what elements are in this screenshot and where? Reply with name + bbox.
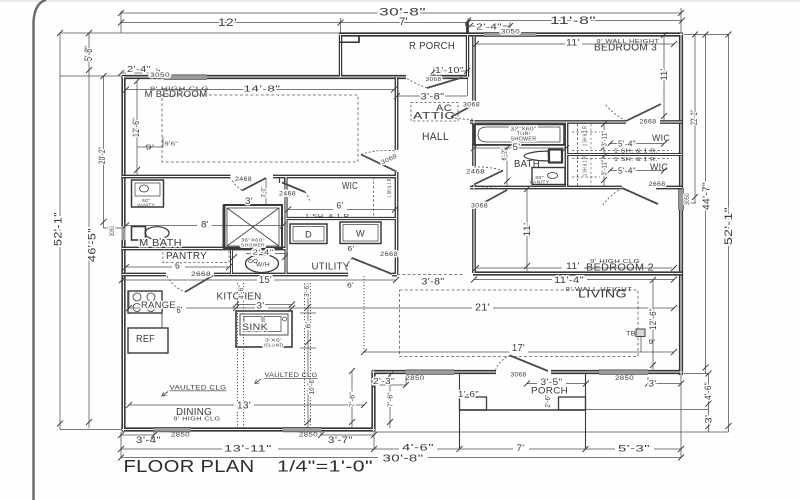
svg-text:FLOOR PLAN: FLOOR PLAN bbox=[124, 456, 255, 476]
svg-text:HALL: HALL bbox=[422, 131, 449, 143]
m-bath toilet bbox=[132, 227, 146, 241]
svg-text:W/H: W/H bbox=[256, 263, 270, 269]
svg-text:TB: TB bbox=[626, 331, 636, 338]
9'/9'6" tick m bedroom bbox=[137, 146, 163, 148]
svg-text:WIC: WIC bbox=[342, 181, 358, 192]
svg-text:VANITY: VANITY bbox=[530, 180, 550, 185]
wall: top exterior (R PORCH + BEDROOM 3) bbox=[339, 34, 484, 36]
wall: bath/wic top (bedroom3 bottom) bbox=[470, 120, 626, 124]
wall: bath right bbox=[566, 122, 568, 188]
dim line 13' dining bbox=[129, 404, 234, 406]
kitchen island + sink bbox=[236, 311, 292, 347]
svg-text:11': 11' bbox=[659, 69, 669, 81]
svg-text:1/4"=1'-0": 1/4"=1'-0" bbox=[277, 459, 373, 476]
svg-text:3'-11": 3'-11" bbox=[601, 130, 608, 146]
dim line 11' bedroom3 bbox=[476, 43, 566, 45]
svg-text:1 SH. & 1 R.: 1 SH. & 1 R. bbox=[305, 214, 352, 220]
svg-text:4'-6": 4'-6" bbox=[402, 443, 434, 454]
door 3068 hall to M bedroom: leaf bbox=[361, 155, 397, 172]
svg-text:VAULTED CLG: VAULTED CLG bbox=[265, 372, 318, 379]
svg-text:2'-3": 2'-3" bbox=[373, 377, 395, 386]
svg-text:11': 11' bbox=[566, 38, 580, 48]
window: dining bottom 2850 right bbox=[283, 428, 321, 432]
porch posts and slab bbox=[459, 374, 461, 448]
wall: R PORCH left bbox=[340, 34, 342, 77]
door 2668 utility: leaf bbox=[352, 258, 392, 274]
dim line 11'-8" top bbox=[468, 20, 682, 22]
svg-text:M BATH: M BATH bbox=[139, 238, 182, 249]
svg-text:3068: 3068 bbox=[511, 373, 527, 379]
bath2 toilet bbox=[524, 151, 549, 161]
wall: left exterior bbox=[123, 76, 125, 226]
AC attic dashed box bbox=[411, 103, 458, 122]
dim line vaulted 3'-6"/6'/10'-6" bbox=[307, 283, 309, 428]
svg-text:7'-6": 7'-6" bbox=[387, 392, 394, 407]
dim line 3'-8" hall top bbox=[397, 95, 467, 97]
dim line 3' bottom right window bbox=[648, 383, 681, 385]
dim line 2'-4" bedroom3 window bbox=[470, 25, 510, 27]
TB thermostat box bbox=[636, 329, 645, 337]
door 2468 bath2: leaf bbox=[474, 171, 503, 185]
dim line 12' / 7' top bbox=[121, 22, 468, 24]
water heater W/H bbox=[246, 255, 279, 273]
dim line 15' kitchen bbox=[122, 279, 257, 281]
wic right shelves dashed bbox=[577, 124, 579, 153]
porch right wall stub to dim line bbox=[466, 22, 469, 34]
svg-text:3050: 3050 bbox=[110, 226, 116, 236]
wall: M bedroom bottom bbox=[122, 175, 231, 179]
wall: pantry right bbox=[230, 249, 233, 275]
svg-text:5'-8": 5'-8" bbox=[83, 46, 95, 61]
dim line 30'-8" bottom bbox=[121, 457, 378, 459]
svg-text:2668: 2668 bbox=[649, 182, 666, 188]
svg-text:2468: 2468 bbox=[466, 170, 485, 176]
svg-text:46'-5": 46'-5" bbox=[86, 228, 98, 262]
wall: m-bath bottom / pantry top bbox=[122, 247, 286, 251]
door 3068 porch to hall: leaf bbox=[427, 78, 462, 89]
svg-text:6': 6' bbox=[348, 244, 355, 253]
svg-text:3': 3' bbox=[245, 196, 253, 206]
door 3068 bedroom2: leaf bbox=[474, 190, 507, 208]
svg-text:RANGE: RANGE bbox=[141, 300, 176, 310]
svg-text:1 SH & 1 R: 1 SH & 1 R bbox=[582, 126, 588, 146]
svg-text:52'-1": 52'-1" bbox=[52, 212, 64, 246]
svg-text:WIC: WIC bbox=[650, 162, 668, 172]
wall: m-bath shower left bbox=[223, 205, 225, 249]
svg-text:10'-6": 10'-6" bbox=[309, 377, 316, 394]
dim line 2'-3" living window bbox=[375, 384, 406, 386]
wall: right exterior bbox=[680, 33, 682, 188]
dim lines 5'-4" wics bbox=[610, 143, 664, 145]
svg-text:6': 6' bbox=[175, 261, 182, 271]
living ceiling dashed box bbox=[400, 290, 639, 357]
svg-text:2'-6": 2'-6" bbox=[545, 394, 552, 407]
paper edge top shading bbox=[0, 0, 800, 2]
svg-text:9'6": 9'6" bbox=[165, 142, 179, 148]
svg-text:6': 6' bbox=[347, 281, 354, 290]
wall: hall right bbox=[472, 36, 476, 104]
porch corner notch column bbox=[340, 36, 359, 42]
wall: wic bottom / bedroom2 top bbox=[470, 187, 622, 189]
svg-text:D: D bbox=[305, 230, 312, 240]
svg-text:2'-4": 2'-4" bbox=[127, 65, 151, 74]
svg-text:20'-2": 20'-2" bbox=[97, 147, 107, 164]
svg-text:ISLAND: ISLAND bbox=[264, 343, 284, 348]
svg-text:5': 5' bbox=[513, 142, 521, 152]
dim line 8' m bath bbox=[126, 225, 197, 227]
wall: hall right bbox=[473, 36, 475, 104]
svg-text:5'-4": 5'-4" bbox=[618, 140, 636, 149]
svg-text:2850: 2850 bbox=[615, 376, 634, 382]
porch corner notch column bbox=[340, 36, 359, 42]
svg-text:VANITY: VANITY bbox=[137, 203, 155, 208]
svg-text:3': 3' bbox=[649, 379, 657, 389]
pantry shelves dashed bbox=[163, 250, 229, 263]
door 3068 bedroom3: leaf bbox=[451, 105, 474, 118]
window: dining bottom 2850 right bbox=[283, 428, 321, 432]
svg-text:44'-7": 44'-7" bbox=[702, 182, 713, 210]
dim line 1'-10" porch door bbox=[434, 70, 467, 72]
wall: m-bath bottom / pantry top bbox=[122, 248, 286, 250]
dim line 12'-6" m bedroom bbox=[136, 81, 138, 176]
svg-text:2'-4": 2'-4" bbox=[476, 22, 502, 32]
window: right wall bedroom2 3050 bbox=[679, 188, 683, 210]
window: left wall m-bath 3050 bbox=[122, 226, 126, 240]
svg-text:3050: 3050 bbox=[685, 193, 691, 205]
svg-text:1 SH & 1 R: 1 SH & 1 R bbox=[387, 178, 393, 197]
svg-text:3050: 3050 bbox=[501, 30, 520, 36]
closet jamb notch between 2468 doors bbox=[280, 178, 285, 183]
svg-text:LIVING: LIVING bbox=[578, 289, 627, 301]
wic-left shelf dashed bbox=[373, 177, 375, 218]
window: right wall bedroom2 3050 bbox=[679, 188, 683, 210]
svg-text:9' HIGH CLG: 9' HIGH CLG bbox=[174, 417, 221, 423]
dim line 20'-2" left bbox=[103, 76, 105, 228]
wall: wic divider bbox=[566, 154, 681, 156]
dim line 3'-5" porch bbox=[527, 383, 537, 385]
svg-text:3': 3' bbox=[704, 415, 714, 424]
wall: R PORCH right bbox=[467, 34, 469, 77]
dim line 14'-8" m bedroom bbox=[126, 89, 245, 91]
wall: wic/utility divider bbox=[286, 218, 397, 220]
porch right wall stub to dim line bbox=[466, 22, 469, 34]
svg-text:SINK: SINK bbox=[242, 322, 268, 332]
svg-text:WIC: WIC bbox=[652, 133, 670, 143]
window: living bottom 2850 left bbox=[406, 370, 454, 374]
svg-text:9': 9' bbox=[146, 145, 155, 152]
window: 3050 top wall bedroom3 bbox=[484, 33, 536, 37]
dim line 30'-8" top bbox=[121, 12, 681, 14]
wall: top of M BEDROOM / hall (upper-left exterior) bbox=[122, 75, 164, 79]
window: 3050 M bedroom top wall bbox=[164, 75, 207, 79]
wall: R PORCH left bbox=[339, 34, 342, 77]
svg-text:12': 12' bbox=[218, 17, 237, 29]
dim line 44'-7" right bbox=[705, 35, 707, 374]
svg-text:ATTIC: ATTIC bbox=[413, 111, 455, 122]
wall: M bedroom bottom bbox=[122, 176, 231, 178]
wall: bath/wic top (bedroom3 bottom) bbox=[470, 121, 626, 123]
svg-text:14'-8": 14'-8" bbox=[244, 84, 281, 94]
window: dining bottom 2850 left bbox=[154, 428, 191, 432]
dim 3'-0" door width line bbox=[265, 178, 267, 205]
vaulted clg arrows bbox=[162, 392, 168, 397]
svg-text:2850: 2850 bbox=[299, 433, 318, 439]
svg-text:7': 7' bbox=[517, 443, 525, 454]
svg-text:2'-4": 2'-4" bbox=[253, 248, 274, 257]
wall: R PORCH right bbox=[466, 34, 469, 77]
svg-text:3068: 3068 bbox=[426, 77, 442, 83]
svg-text:6': 6' bbox=[337, 201, 344, 211]
wall: wic-left west bbox=[285, 176, 287, 275]
dim line 3' island bbox=[236, 304, 292, 306]
closet jamb notch between 2468 doors bbox=[280, 178, 285, 183]
wall: wic bottom / bedroom2 top bbox=[470, 186, 622, 190]
shower 36x60 bbox=[224, 205, 282, 249]
svg-text:6'-2": 6'-2" bbox=[501, 148, 508, 160]
wall: bottom dining exterior bbox=[122, 429, 154, 431]
svg-text:5'-3": 5'-3" bbox=[618, 444, 650, 455]
svg-text:3068: 3068 bbox=[463, 103, 480, 109]
vaulted ceiling dotted lines kitchen/dining bbox=[237, 283, 239, 428]
wall: bedroom2 bottom / living top bbox=[473, 271, 682, 275]
door 2668 wic-bottom to bedroom2: leaf bbox=[622, 188, 658, 204]
dim line 3'-4" bottom left bbox=[121, 434, 154, 436]
door 2468 to M bath: leaf bbox=[242, 178, 266, 191]
dim line 3'-7" bottom bbox=[321, 434, 374, 436]
svg-text:3'-4": 3'-4" bbox=[136, 435, 161, 445]
dim line 4'-6"/3' bottom right bbox=[708, 374, 710, 433]
wall: step between living and dining bbox=[373, 371, 375, 432]
svg-text:6': 6' bbox=[305, 322, 312, 329]
window: left wall m-bath 3050 bbox=[122, 226, 126, 240]
svg-text:7': 7' bbox=[399, 16, 408, 28]
svg-text:17': 17' bbox=[512, 343, 525, 354]
left extension lines bbox=[60, 32, 340, 34]
dim line 5' bath2 + 6'-2" bbox=[474, 147, 566, 149]
wall: pantry right bbox=[231, 249, 233, 275]
title: FLOOR PLAN 1/4"=1'-0" bbox=[124, 456, 374, 476]
dim line 6'/3'/21' kitchen-living bbox=[129, 307, 172, 309]
svg-text:11'-8": 11'-8" bbox=[550, 15, 596, 27]
wall: wic divider bbox=[566, 153, 681, 156]
svg-text:2668: 2668 bbox=[640, 120, 657, 126]
svg-text:8': 8' bbox=[201, 220, 209, 230]
svg-text:3'-0": 3'-0" bbox=[262, 187, 268, 198]
hall/living cased opening dashed bbox=[397, 274, 464, 276]
window: 3050 M bedroom top wall bbox=[164, 75, 207, 79]
wall: left exterior bbox=[121, 76, 125, 226]
svg-text:3'-7": 3'-7" bbox=[328, 435, 353, 445]
wall: right exterior bbox=[679, 33, 683, 188]
door 2668 wic-top to bedroom3: leaf bbox=[626, 104, 661, 121]
svg-text:11'-4": 11'-4" bbox=[554, 275, 584, 285]
svg-text:15': 15' bbox=[259, 275, 272, 286]
dim line 6' wic-left bbox=[288, 209, 333, 211]
dryer D bbox=[290, 224, 327, 244]
dim line 5'-8" / 46'-5" left bbox=[88, 33, 90, 428]
svg-text:3'-11": 3'-11" bbox=[601, 159, 608, 175]
svg-text:1'-10": 1'-10" bbox=[435, 65, 464, 75]
svg-text:5'-4": 5'-4" bbox=[618, 167, 636, 176]
svg-text:21': 21' bbox=[475, 303, 490, 314]
svg-text:2850: 2850 bbox=[406, 376, 425, 382]
wall: bedroom2 bottom / living top bbox=[473, 273, 682, 275]
svg-text:REF: REF bbox=[136, 334, 155, 345]
svg-text:9': 9' bbox=[649, 339, 656, 346]
wall: m-bath shower left bbox=[223, 205, 226, 249]
washer W bbox=[340, 222, 381, 244]
svg-text:PANTRY: PANTRY bbox=[166, 251, 207, 262]
svg-text:BEDROOM 3: BEDROOM 3 bbox=[594, 43, 657, 54]
svg-text:13': 13' bbox=[237, 401, 251, 412]
dim line 52'-1" right bbox=[728, 35, 730, 433]
dim line 11' bedroom2 bbox=[476, 267, 562, 269]
svg-text:2668: 2668 bbox=[191, 272, 211, 278]
window: 3050 top wall bedroom3 bbox=[484, 33, 536, 37]
tick slashes bbox=[57, 10, 732, 461]
svg-text:4'-6": 4'-6" bbox=[238, 285, 245, 299]
svg-text:12'-6": 12'-6" bbox=[648, 308, 658, 330]
wall: wic-left west bbox=[284, 176, 287, 275]
paper edge left curve bbox=[34, 0, 47, 500]
svg-text:1'-6": 1'-6" bbox=[458, 390, 479, 399]
wall: step between living and dining bbox=[371, 371, 375, 432]
window: living bottom 2850 right bbox=[599, 370, 648, 374]
dim line 2'-4" m bedroom window bbox=[121, 72, 157, 74]
window: dining bottom 2850 left bbox=[154, 428, 191, 432]
svg-text:M BEDROOM: M BEDROOM bbox=[145, 89, 208, 100]
dim line 13'-11"/4'-6"/7'/5'-3" bottom bbox=[121, 448, 222, 450]
door 2668 pantry: leaf bbox=[185, 276, 213, 293]
wall: hall left (M bedroom right) bbox=[396, 77, 398, 150]
svg-text:11': 11' bbox=[522, 223, 532, 237]
svg-text:3': 3' bbox=[257, 301, 265, 311]
svg-text:R PORCH: R PORCH bbox=[409, 41, 455, 52]
svg-text:6': 6' bbox=[177, 305, 183, 315]
dim line 6' pantry bbox=[126, 266, 172, 268]
window: living bottom 2850 right bbox=[599, 370, 648, 374]
dim line 7'-6" step (interior+exterior) bbox=[351, 371, 353, 428]
dim line 12'-6" living right bbox=[652, 280, 654, 371]
bath2 tub 32x60 bbox=[474, 125, 564, 146]
wall: hall left (M bedroom right) bbox=[395, 77, 399, 150]
svg-text:13'-11": 13'-11" bbox=[224, 444, 272, 454]
wall: bottom dining exterior bbox=[122, 427, 154, 431]
dim line 2'-4" w/h bbox=[246, 253, 251, 255]
wall: bottom living/porch exterior bbox=[372, 370, 406, 374]
bath2 vanity bbox=[532, 168, 565, 185]
m-bath vanity bbox=[132, 180, 164, 207]
svg-text:3'-8": 3'-8" bbox=[421, 92, 445, 102]
svg-text:12'-6": 12'-6" bbox=[131, 118, 141, 137]
svg-text:1 SH & 1 R: 1 SH & 1 R bbox=[582, 156, 588, 176]
window: living bottom 2850 left bbox=[406, 370, 454, 374]
svg-text:3068: 3068 bbox=[471, 204, 488, 210]
svg-text:W: W bbox=[356, 229, 365, 239]
dim line 11'-4" living top bbox=[474, 279, 552, 281]
wic shelf dashed horizontals bbox=[572, 150, 672, 152]
svg-text:2468: 2468 bbox=[279, 192, 296, 198]
svg-text:2850: 2850 bbox=[171, 433, 190, 439]
door 3068 front entry: leaf bbox=[510, 356, 548, 372]
bath2 interior line under tub bbox=[472, 144, 566, 146]
svg-text:BATH: BATH bbox=[514, 159, 540, 170]
wall: kitchen top bbox=[122, 274, 166, 276]
svg-text:22'-2": 22'-2" bbox=[689, 110, 699, 125]
dim line 22'-2" right bbox=[694, 35, 696, 204]
svg-text:3050: 3050 bbox=[150, 73, 170, 79]
door 2468 to WIC: leaf bbox=[282, 183, 305, 193]
svg-text:11': 11' bbox=[566, 261, 580, 271]
range bbox=[128, 291, 162, 313]
svg-text:1 SH. & 1 R.: 1 SH. & 1 R. bbox=[614, 149, 658, 155]
svg-text:7'-6": 7'-6" bbox=[349, 392, 356, 407]
svg-text:BEDROOM 2: BEDROOM 2 bbox=[586, 263, 654, 274]
right extension lines bbox=[684, 34, 729, 36]
svg-text:2468: 2468 bbox=[235, 177, 252, 183]
svg-text:3'-6": 3'-6" bbox=[304, 283, 311, 297]
svg-text:UTILITY: UTILITY bbox=[312, 262, 350, 273]
wall: kitchen top bbox=[122, 273, 166, 277]
svg-text:2668: 2668 bbox=[380, 252, 398, 258]
dim line 52'-1" left bbox=[59, 33, 61, 430]
M bedroom ceiling dashed box bbox=[162, 95, 358, 162]
dim line 17' living bbox=[364, 351, 509, 353]
wall: wic/utility divider bbox=[286, 217, 397, 220]
fridge REF bbox=[128, 328, 168, 353]
svg-text:VAULTED CLG: VAULTED CLG bbox=[170, 385, 227, 392]
svg-text:52'-1": 52'-1" bbox=[723, 207, 735, 245]
svg-text:30'-8": 30'-8" bbox=[383, 454, 424, 465]
wall: top of M BEDROOM / hall (upper-left exterior) bbox=[122, 76, 164, 78]
svg-text:3'-8": 3'-8" bbox=[422, 277, 445, 287]
wall: top exterior (R PORCH + BEDROOM 3) bbox=[339, 32, 484, 36]
wall: bath right bbox=[565, 122, 569, 188]
wall: bottom living/porch exterior bbox=[372, 371, 406, 373]
svg-text:4'-6": 4'-6" bbox=[703, 382, 713, 400]
